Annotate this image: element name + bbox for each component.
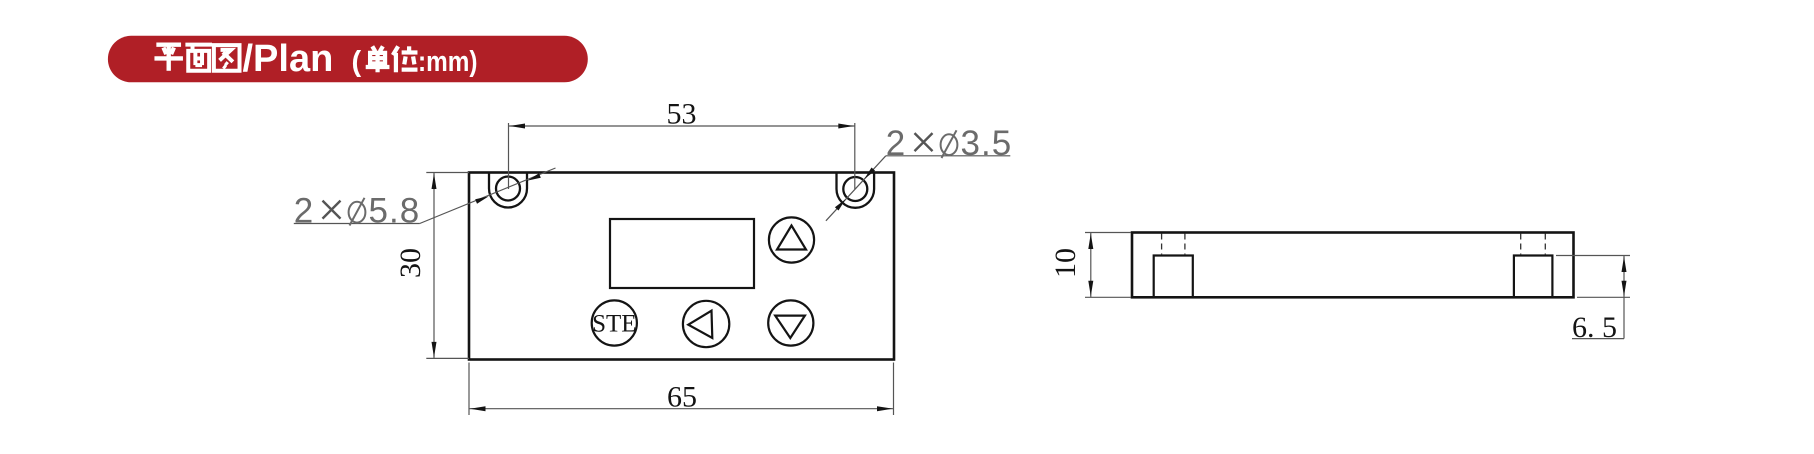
svg-text:5.8: 5.8 xyxy=(369,192,421,231)
label 2x3.5 leader xyxy=(826,124,1012,221)
hidden lines right foot xyxy=(1521,234,1546,256)
svg-text:6. 5: 6. 5 xyxy=(1572,311,1617,344)
dimension 6.5 xyxy=(1556,256,1630,345)
banner text 单 xyxy=(366,46,390,72)
svg-text:(: ( xyxy=(352,46,362,78)
svg-text:3.5: 3.5 xyxy=(961,124,1013,163)
STE button xyxy=(592,300,637,345)
svg-text:STE: STE xyxy=(592,311,636,338)
banner text 图 xyxy=(214,45,240,71)
label 2x5.8 leader xyxy=(294,168,556,231)
svg-text:65: 65 xyxy=(667,381,697,414)
down button xyxy=(768,300,813,345)
banner text 面 xyxy=(185,45,212,71)
left button xyxy=(683,301,729,347)
svg-text:53: 53 xyxy=(667,98,697,131)
dimension 65 xyxy=(469,363,894,416)
svg-text::mm): :mm) xyxy=(418,46,478,78)
svg-text:2: 2 xyxy=(294,192,313,231)
svg-text:2: 2 xyxy=(886,124,905,163)
right mounting hole inner circle xyxy=(843,177,867,201)
banner text 位 xyxy=(393,46,418,72)
display window xyxy=(610,219,754,288)
dimension 53 xyxy=(509,98,855,190)
side right foot xyxy=(1514,256,1553,298)
left mounting hole outer xyxy=(489,173,527,208)
side view outline xyxy=(1132,233,1574,298)
left mounting hole inner circle xyxy=(496,177,520,201)
hidden lines left foot xyxy=(1162,234,1185,256)
svg-text:30: 30 xyxy=(394,248,427,278)
title banner xyxy=(108,36,588,83)
plan view outline xyxy=(469,173,894,360)
dimension 10 xyxy=(1049,233,1131,298)
svg-text:/Plan: /Plan xyxy=(243,38,334,80)
banner text 平 xyxy=(154,45,183,71)
right mounting hole outer xyxy=(837,173,875,208)
dimension 30 xyxy=(394,173,469,359)
svg-text:10: 10 xyxy=(1049,248,1082,278)
side left foot xyxy=(1154,256,1193,298)
up button xyxy=(769,217,814,262)
